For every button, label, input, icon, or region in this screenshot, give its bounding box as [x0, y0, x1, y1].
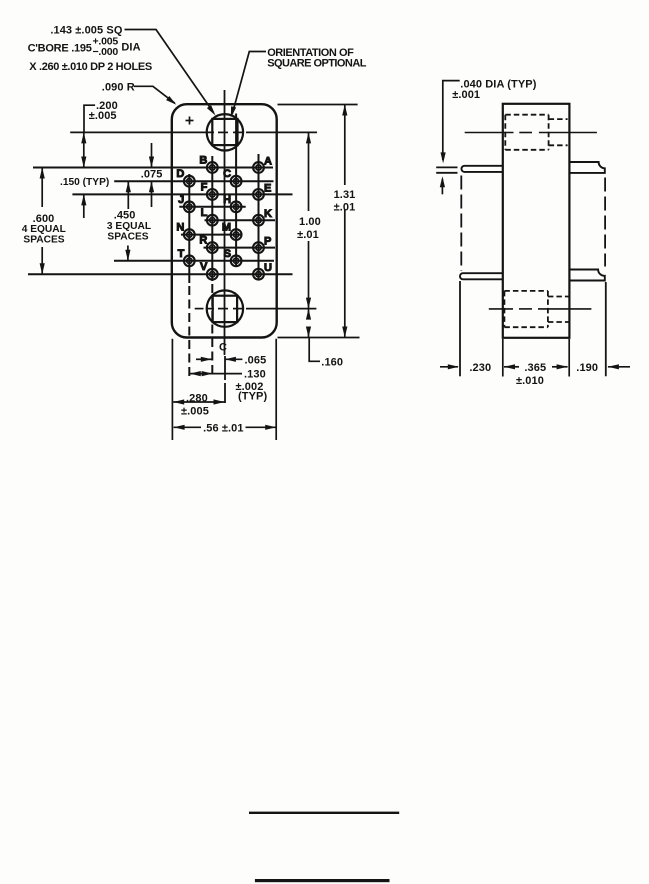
- svg-text:±.010: ±.010: [516, 375, 544, 387]
- column line D/J/N/T: [188, 174, 190, 283]
- row line V/U: [28, 273, 293, 275]
- bottom square hole: [213, 296, 237, 322]
- bottom horizontal rule 1: [249, 812, 399, 814]
- svg-text:3 EQUAL: 3 EQUAL: [107, 221, 151, 232]
- svg-text:X .260 ±.010 DP 2 HOLES: X .260 ±.010 DP 2 HOLES: [29, 61, 152, 73]
- side body extension lines below: [502, 339, 504, 377]
- svg-text:F: F: [201, 181, 208, 193]
- svg-text:P: P: [264, 236, 271, 248]
- top right retention block: [569, 162, 604, 173]
- svg-text:1.31: 1.31: [334, 189, 356, 201]
- dim 1.31 line and arrows: [344, 105, 346, 186]
- side view body: [503, 104, 570, 338]
- svg-text:K: K: [264, 208, 272, 220]
- pin U: [253, 262, 272, 279]
- left hidden edge dashed: [460, 176, 462, 272]
- dim .075 arrows: [151, 143, 153, 168]
- svg-text:.090 R: .090 R: [102, 82, 135, 94]
- pin F: [201, 181, 218, 199]
- dim .280: [173, 401, 224, 403]
- svg-text:.160: .160: [321, 356, 343, 368]
- column line B/F/L/R/V: [211, 156, 213, 281]
- radius center mark +: [186, 120, 194, 122]
- pin R: [199, 235, 217, 253]
- svg-text:E: E: [264, 182, 271, 194]
- leader from .090 R note to corner radius: [134, 86, 175, 103]
- row line F/E: [72, 193, 292, 195]
- top contact tail (left pin bar): [461, 166, 502, 172]
- pin H: [223, 194, 241, 212]
- top mounting hole circle: [207, 114, 243, 150]
- svg-text:SPACES: SPACES: [23, 235, 64, 246]
- dim .230/.365/.190 arrows: [440, 366, 458, 368]
- bottom counterbore hidden outline: [504, 290, 548, 292]
- svg-text:C'BORE .195: C'BORE .195: [28, 42, 92, 54]
- svg-text:V: V: [200, 261, 208, 273]
- pin A: [253, 156, 272, 173]
- svg-text:S: S: [224, 248, 231, 260]
- bottom mounting hole circle: [207, 290, 243, 326]
- pin N: [176, 222, 194, 240]
- column line A/E/K/P/U: [258, 154, 260, 280]
- top square hole hidden lines: [549, 118, 568, 120]
- pin D: [176, 168, 194, 186]
- svg-text:.075: .075: [141, 168, 163, 180]
- svg-text:±.01: ±.01: [334, 202, 356, 214]
- pin C: [223, 168, 241, 186]
- top edge extension line: [278, 104, 358, 106]
- dim .600 arrows: [41, 168, 43, 208]
- svg-text:−.000: −.000: [93, 46, 119, 58]
- connector body outline (front view): [172, 104, 277, 337]
- svg-text:.230: .230: [469, 362, 491, 374]
- pin K: [253, 208, 272, 225]
- bottom contact tail (left pin bar): [460, 273, 503, 279]
- dim .56: [174, 426, 201, 428]
- svg-text:D: D: [176, 168, 184, 180]
- pin T: [178, 248, 195, 266]
- svg-text:N: N: [176, 222, 184, 234]
- left bottom extension line: [171, 339, 173, 440]
- svg-text:.130: .130: [244, 369, 266, 381]
- pin V: [200, 261, 218, 279]
- svg-text:4 EQUAL: 4 EQUAL: [22, 224, 66, 235]
- svg-text:SQUARE OPTIONAL: SQUARE OPTIONAL: [267, 57, 367, 69]
- svg-text:±.001: ±.001: [452, 89, 480, 101]
- row line R/P: [204, 247, 276, 249]
- right hidden edge dashed: [604, 178, 606, 267]
- svg-text:C: C: [219, 342, 227, 354]
- dim .450 arrows: [127, 181, 129, 209]
- dim .160 arrows: [308, 309, 310, 318]
- leader from .143 SQ note to square hole: [125, 30, 214, 113]
- svg-text:1.00: 1.00: [299, 216, 321, 228]
- row line D/C: [114, 180, 273, 182]
- svg-text:C: C: [223, 168, 231, 180]
- bottom horizontal rule 2: [255, 879, 390, 882]
- top hole horizontal centerline: [70, 131, 214, 133]
- dim 1.00 line and arrows: [308, 132, 310, 211]
- svg-text:.56 ±.01: .56 ±.01: [203, 422, 243, 434]
- bottom right retention block: [569, 270, 604, 281]
- leader from ORIENTATION note to square hole: [232, 52, 266, 114]
- pin L: [201, 207, 218, 225]
- bottom hole horizontal centerline: [195, 308, 204, 310]
- dim .150 arrow: [83, 194, 85, 218]
- svg-text:H: H: [223, 194, 231, 206]
- right bottom extension line: [275, 339, 277, 440]
- svg-text:.280: .280: [186, 393, 208, 405]
- pin P: [253, 236, 271, 253]
- dim .200 bracket and arrows: [84, 105, 95, 132]
- centerline lower extension segment: [224, 356, 226, 380]
- svg-text:DIA: DIA: [121, 42, 140, 54]
- bottom hole centerline (side): [489, 308, 513, 310]
- column line C/H/M/S: [235, 114, 237, 267]
- svg-text:(TYP): (TYP): [238, 391, 267, 403]
- dim .040 leader: [443, 81, 460, 160]
- svg-text:SPACES: SPACES: [107, 232, 148, 243]
- pin B: [199, 155, 217, 173]
- pin M: [222, 222, 242, 240]
- svg-text:M: M: [222, 222, 231, 234]
- bottom square hole hidden lines: [548, 296, 569, 298]
- svg-text:J: J: [178, 194, 184, 206]
- svg-text:U: U: [264, 262, 272, 274]
- svg-text:R: R: [199, 235, 207, 247]
- svg-text:.150 (TYP): .150 (TYP): [60, 177, 109, 188]
- svg-text:A: A: [264, 156, 272, 168]
- right outer extension below: [605, 282, 607, 376]
- dim .130: [190, 373, 242, 375]
- svg-text:L: L: [201, 207, 208, 219]
- dim .065: [196, 358, 212, 360]
- row line N/M: [181, 234, 241, 236]
- top counterbore hidden outline: [505, 114, 548, 116]
- dim .160 leader: [309, 338, 320, 362]
- svg-text:B: B: [199, 155, 207, 167]
- row line L/K: [205, 219, 276, 221]
- pin S: [224, 248, 242, 266]
- svg-text:±.01: ±.01: [297, 229, 319, 241]
- top square hole: [212, 119, 237, 145]
- svg-text:.365: .365: [524, 362, 546, 374]
- .040 tick lines: [436, 166, 457, 168]
- top hole centerline (side): [465, 132, 514, 134]
- left outer extension below: [459, 281, 461, 376]
- row line J/H: [179, 206, 245, 208]
- svg-text:.450: .450: [114, 210, 136, 222]
- svg-text:±.005: ±.005: [181, 406, 209, 418]
- svg-text:±.005: ±.005: [89, 110, 117, 122]
- pin J: [178, 194, 195, 212]
- svg-text:.600: .600: [33, 213, 55, 225]
- row line B/A: [33, 167, 273, 169]
- svg-text:.065: .065: [245, 354, 267, 366]
- svg-text:T: T: [178, 248, 185, 260]
- pin E: [253, 182, 271, 199]
- row line T/S: [114, 260, 274, 262]
- bottom edge extension line: [278, 337, 360, 339]
- vertical centerline of connector: [224, 90, 226, 355]
- svg-text:.190: .190: [576, 362, 598, 374]
